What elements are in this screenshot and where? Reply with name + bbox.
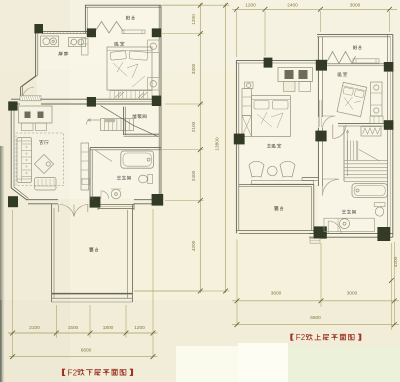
right plan balcony folding door [326, 52, 356, 64]
column right-plan right-mid [384, 120, 394, 130]
left plan entry diagonal wall [21, 76, 36, 87]
right plan caption [291, 334, 293, 340]
left plan coffee table [34, 155, 53, 174]
column left-plan mid-a [87, 97, 96, 107]
column right-plan bottom-a [314, 226, 327, 238]
left plan dining table [19, 106, 52, 123]
left plan bottom wall [26, 199, 58, 201]
right plan right wall [387, 34, 389, 237]
column right-plan mid-top [316, 60, 327, 71]
right plan bedroom bed rotated [337, 82, 367, 116]
right plan stair arrow diagonal [347, 130, 349, 176]
svg-text:3000: 3000 [350, 3, 361, 9]
right plan terrace label [274, 206, 278, 210]
right plan dressing table [252, 181, 314, 185]
left plan terrace french door [60, 205, 74, 217]
svg-text:F2: F2 [68, 368, 78, 377]
left plan balcony label [126, 16, 129, 20]
right plan bedroom label [338, 73, 342, 77]
right plan master bedroom label [267, 144, 271, 148]
column left-plan bottom-right [152, 194, 164, 206]
svg-text:1200: 1200 [245, 3, 256, 9]
left plan stairs upper run [101, 119, 134, 131]
left plan bottom-left diagonal wall [11, 188, 27, 200]
right plan bedroom door [332, 125, 334, 139]
left plan storage label [133, 114, 137, 118]
right plan bathtub [352, 184, 387, 198]
column left-plan balcony-left [87, 28, 96, 37]
svg-text:1800: 1800 [103, 325, 114, 331]
left plan kitchen sink counter [41, 36, 59, 47]
vertical dimension line 13200 segments [199, 3, 201, 293]
right plan stool [245, 82, 254, 89]
svg-text:6600: 6600 [81, 348, 92, 354]
right plan bedroom wardrobe [371, 82, 382, 116]
svg-text:F2: F2 [296, 333, 306, 342]
left plan dim line 6600 [9, 356, 158, 358]
left plan balcony folding door [94, 22, 123, 34]
left plan stair break line [101, 106, 134, 126]
svg-text:1200: 1200 [191, 14, 197, 25]
right plan bedroom bottom wall [338, 123, 388, 125]
left plan caption [63, 369, 65, 375]
svg-text:4200: 4200 [191, 240, 197, 251]
left plan right wall [158, 5, 160, 199]
column right-plan top-left [264, 58, 273, 68]
column left-plan mid-left [8, 101, 17, 110]
right plan small unit below wall [310, 238, 320, 243]
right plan desk [278, 68, 313, 82]
page shading subtle [0, 0, 70, 382]
left plan kitchen left wall [35, 24, 37, 76]
right plan bedroom cabinet [370, 116, 383, 123]
right plan counter and basin [324, 218, 374, 231]
svg-text:2400: 2400 [287, 3, 298, 9]
right plan balcony shelf [353, 59, 379, 63]
left plan stair arrow [88, 119, 101, 121]
left plan dim line row1 [8, 332, 158, 334]
svg-text:6600: 6600 [310, 315, 321, 321]
column left-plan bottom-left [8, 196, 18, 207]
right plan hall closet W [361, 127, 381, 136]
left plan hall cabinet [81, 143, 89, 190]
left plan fridge [81, 39, 88, 55]
left plan living room carpet dashed [16, 133, 64, 186]
column left-plan mid-b [152, 96, 161, 106]
left plan terrace window strip [98, 204, 134, 206]
right plan dressing chairs [249, 161, 264, 177]
right plan bathroom bottom wall [309, 233, 393, 235]
left plan bedside tables [148, 40, 159, 52]
right plan balcony label [354, 46, 357, 50]
left plan room white fill [86, 6, 160, 32]
right plan bathroom door from stairs [322, 178, 338, 180]
left plan shower door arc [101, 191, 109, 199]
svg-text:3300: 3300 [191, 63, 197, 74]
right plan master bed [251, 96, 290, 137]
left plan entry door [20, 96, 41, 101]
pale zone bottom-center [176, 346, 238, 382]
svg-text:2400: 2400 [191, 170, 197, 181]
right plan wall stub [302, 177, 318, 179]
left plan middle wall band [41, 98, 161, 100]
left plan living room label [39, 140, 43, 144]
svg-text:4200: 4200 [393, 256, 399, 267]
svg-text:2100: 2100 [29, 325, 40, 331]
right plan room white fill [318, 37, 393, 236]
right side partial dim line [390, 243, 392, 330]
left plan bathroom walls [90, 147, 161, 149]
right plan top wall bedroom [317, 33, 393, 35]
column right-plan bottom-b [377, 227, 390, 241]
left plan bathroom label [117, 176, 121, 180]
svg-text:3000: 3000 [347, 290, 358, 296]
left plan balcony shelf [122, 30, 145, 34]
right plan middle wall window [319, 100, 321, 127]
column right-plan left-mid [234, 134, 245, 145]
left plan bedroom-storage window ticks [109, 91, 111, 100]
right plan terrace walls [239, 184, 314, 186]
dim extension lines left plan right side [162, 4, 204, 6]
right plan stairs [343, 126, 345, 181]
left plan left wall [10, 102, 12, 188]
svg-text:1200: 1200 [134, 325, 145, 331]
column left-plan bottom-mid [90, 197, 101, 208]
left plan terrace walls [51, 204, 53, 302]
svg-text:3600: 3600 [271, 290, 282, 296]
right plan dim 6600 [232, 324, 399, 326]
vertical dimension line 13800 [225, 3, 227, 293]
left plan kitchen window wall [42, 30, 87, 32]
left plan terrace label [89, 248, 93, 252]
left plan toilet [148, 174, 153, 183]
svg-text:13800: 13800 [215, 137, 221, 151]
right plan master door arc [317, 117, 319, 128]
right plan bath door bottom [327, 221, 329, 234]
svg-text:1500: 1500 [68, 325, 79, 331]
left plan storage walls [123, 107, 125, 135]
left plan kitchen label [59, 52, 63, 56]
right plan top dimension line [232, 8, 397, 10]
right plan left wall [235, 61, 237, 234]
right plan dim row1 [232, 300, 399, 302]
column right-plan center [315, 131, 326, 142]
left plan kitchen stove counter [68, 38, 85, 47]
right plan toilet [374, 203, 385, 207]
left plan bottom extension lines [12, 210, 14, 357]
column left-plan top-left [34, 24, 43, 33]
right plan master cabinet2 [242, 115, 251, 136]
svg-text:2100: 2100 [191, 121, 197, 132]
column left-plan balcony-right [152, 28, 161, 37]
left plan bedroom label [115, 42, 119, 46]
right plan balcony divider wall [322, 63, 387, 65]
column right-plan right-top [384, 62, 394, 72]
pale green zone bottom-right [288, 347, 400, 382]
right plan top wall master bedroom [236, 60, 321, 62]
left plan wash basin [111, 189, 121, 199]
left plan bathtub [121, 151, 154, 168]
left plan bed [107, 47, 152, 90]
right plan middle wall [317, 37, 319, 117]
left plan sofa [17, 138, 32, 183]
left plan balcony walls [85, 4, 161, 6]
right plan bottom extension lines [236, 240, 238, 325]
right plan master wardrobe [242, 89, 251, 116]
right plan top dim extension lines [236, 11, 238, 57]
right plan bathroom label [342, 210, 346, 214]
left plan armchair [35, 177, 56, 190]
